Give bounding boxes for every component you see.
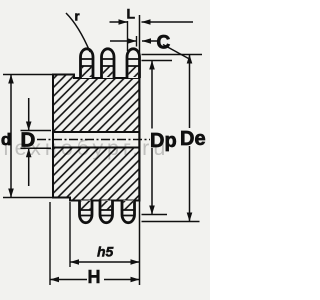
dim D : upper leader + arrowhead [28, 98, 30, 131]
ext line B (body right edge extended) [139, 15, 141, 285]
dim d : bottom arrowhead [8, 189, 14, 198]
body lower hatched section [53, 148, 140, 201]
dim d : dimension line [10, 75, 12, 198]
dim De : top extension line [142, 54, 203, 56]
watermark [1, 136, 211, 161]
tooth T1 top [81, 49, 94, 78]
dim h5 : left extension line [69, 202, 71, 267]
dim L : left line + arrowhead [110, 21, 128, 23]
dim L : right line + arrowhead [142, 21, 194, 23]
hub left edge across bore [52, 130, 54, 149]
tooth B3 bottom [122, 201, 135, 223]
dim De : bottom extension line [142, 221, 200, 223]
body right edge emphasis [138, 74, 140, 201]
dim De : upper dimension line + arrowhead [189, 55, 191, 129]
dim d : top ext line [3, 74, 53, 76]
svg-text:C: C [157, 33, 171, 54]
tooth B1 bottom [80, 201, 93, 223]
dim D : lower leader + arrowhead [28, 148, 30, 186]
dim Dp : upper dimension line + arrowhead [151, 61, 153, 129]
body upper hatched section [53, 75, 140, 133]
tooth B2 bottom [100, 201, 113, 223]
svg-text:r: r [75, 9, 80, 24]
dim Dp : top extension line [142, 60, 173, 62]
dim C : left line + arrowhead [110, 40, 137, 42]
dim Dp : bottom extension line [142, 214, 168, 216]
leader r curve [66, 13, 90, 52]
dim C : left extension tick [136, 36, 138, 47]
dim De : lower dimension line + arrowhead [189, 146, 191, 222]
dim Dp : lower dimension line + arrowhead [151, 148, 153, 215]
dim D : ticks [21, 131, 52, 149]
tooth T2 top [102, 49, 115, 78]
dim C : right line + arrowhead [142, 40, 158, 42]
centerline [37, 139, 150, 141]
dim h5 : dimension line + arrowheads [70, 261, 140, 263]
dim d : top arrowhead [8, 75, 14, 84]
small diagonal near De [163, 45, 189, 59]
tooth T3 top [127, 49, 140, 78]
dim d : bottom ext line [3, 197, 53, 199]
svg-text:H: H [88, 267, 101, 287]
svg-text:h5: h5 [97, 244, 114, 260]
ext line A (tooth3 left edge) [127, 21, 129, 51]
dim H : dimension line + arrowheads [50, 279, 140, 281]
dim H : left extension line [49, 202, 51, 285]
svg-text:L: L [127, 6, 136, 22]
